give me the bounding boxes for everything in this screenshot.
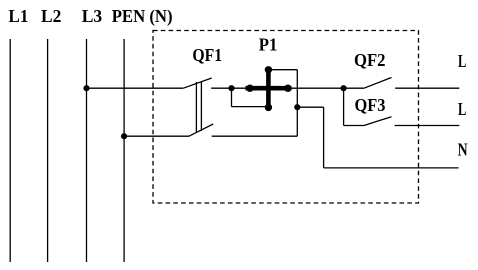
svg-text:QF1: QF1 <box>192 45 222 65</box>
svg-text:L1: L1 <box>8 6 28 26</box>
svg-text:P1: P1 <box>259 34 278 54</box>
svg-text:PEN (N): PEN (N) <box>112 6 173 27</box>
svg-text:L2: L2 <box>41 6 61 26</box>
svg-text:QF2: QF2 <box>354 50 386 70</box>
svg-text:QF3: QF3 <box>355 95 386 115</box>
svg-text:L3: L3 <box>82 6 103 26</box>
svg-text:L: L <box>458 51 466 71</box>
svg-text:N: N <box>458 139 468 159</box>
svg-text:L: L <box>458 99 466 119</box>
